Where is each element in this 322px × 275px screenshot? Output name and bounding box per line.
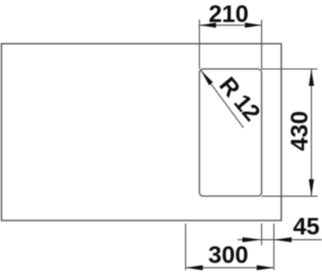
svg-text:45: 45: [293, 213, 320, 240]
svg-text:300: 300: [208, 242, 248, 269]
svg-text:210: 210: [209, 1, 249, 28]
svg-text:430: 430: [287, 111, 314, 151]
